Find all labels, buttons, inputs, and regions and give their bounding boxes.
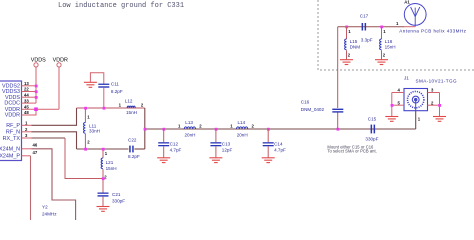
ground under J1 left (385, 117, 398, 122)
svg-text:C22: C22 (128, 138, 137, 143)
main RF line (145, 128, 416, 130)
svg-text:Y2: Y2 (42, 205, 48, 210)
svg-text:L13: L13 (185, 120, 193, 125)
inductor L16 (380, 26, 383, 29)
svg-text:A1: A1 (404, 0, 410, 4)
balun right vertical (144, 108, 146, 149)
VDDS wire (35, 67, 37, 103)
dashed antenna box (318, 0, 474, 70)
svg-text:330pF: 330pF (112, 198, 125, 203)
svg-text:4.7pF: 4.7pF (274, 148, 286, 153)
svg-text:46: 46 (33, 142, 38, 147)
IC U1 (CC1310) box (0, 81, 22, 161)
ground under J1 right (433, 117, 446, 122)
svg-text:20nH: 20nH (185, 133, 196, 138)
junction pin22/VDDS (35, 90, 38, 93)
svg-text:15nH: 15nH (385, 44, 396, 49)
svg-text:47: 47 (33, 150, 38, 155)
svg-text:15nH: 15nH (126, 110, 137, 115)
capacitor C14 shunt (267, 128, 270, 131)
pin 44 stub (22, 96, 37, 98)
svg-text:C17: C17 (360, 14, 369, 19)
svg-text:To select SMA or PCB ant.: To select SMA or PCB ant. (327, 149, 376, 154)
pin 3 RX_TX wire (22, 137, 32, 139)
svg-text:DNM: DNM (350, 44, 361, 49)
svg-text:RX_TX: RX_TX (3, 136, 21, 142)
balun bottom line (77, 148, 129, 150)
svg-text:DNM_0402: DNM_0402 (301, 107, 325, 112)
svg-text:L14: L14 (238, 120, 246, 125)
svg-text:L15: L15 (350, 39, 358, 44)
svg-text:4.7pF: 4.7pF (170, 148, 182, 153)
ground under L15 (340, 60, 353, 65)
svg-text:12pF: 12pF (222, 148, 233, 153)
svg-text:VDDR: VDDR (5, 113, 20, 119)
svg-text:DCDC: DCDC (4, 101, 20, 107)
svg-text:3.3pF: 3.3pF (361, 38, 373, 43)
junction L11 bottom (84, 148, 87, 151)
pin 48 stub and bracket to pin45 (22, 109, 37, 115)
junction pin44/VDDS (35, 96, 38, 99)
svg-text:33nH: 33nH (89, 129, 100, 134)
inductor L11 (84, 108, 86, 123)
pin 47 X24M_P wire down (22, 155, 31, 157)
svg-text:X24M_N: X24M_N (0, 147, 20, 153)
svg-text:SMA-10V21-TGG: SMA-10V21-TGG (416, 78, 457, 83)
svg-text:33: 33 (24, 98, 29, 103)
svg-text:C11: C11 (111, 82, 120, 87)
junction L21 pin2 / RX_TX (102, 177, 105, 180)
capacitor C21 (98, 193, 109, 194)
capacitor C13 shunt (215, 128, 218, 131)
pin 13 stub (22, 85, 37, 87)
capacitor C16 series to antenna (337, 128, 340, 131)
pin 1 RF_P wire (22, 124, 32, 126)
pin 2 RF_N wire (22, 131, 32, 133)
capacitor C17 series (362, 23, 364, 31)
junction pin45/VDDR big (34, 107, 38, 111)
junction C11 node (103, 107, 106, 110)
J1 right ground wire (439, 93, 441, 117)
svg-text:C13: C13 (222, 141, 231, 146)
svg-text:J1: J1 (404, 75, 409, 80)
capacitor C12 shunt (163, 128, 166, 131)
J1 pin 3 stub (428, 92, 440, 94)
svg-text:20nH: 20nH (237, 133, 248, 138)
svg-text:VDDS: VDDS (31, 58, 46, 64)
RX_TX vertical to balun mid node (65, 138, 103, 179)
ground symbol above C11 (84, 82, 97, 87)
svg-text:45: 45 (24, 104, 29, 109)
svg-text:L12: L12 (125, 99, 133, 104)
svg-text:RF_P: RF_P (6, 123, 20, 129)
ground over C11 wire bar (90, 73, 103, 84)
pin 33 stub (22, 102, 37, 104)
svg-text:Antenna PCB helix 433MHz: Antenna PCB helix 433MHz (399, 28, 466, 33)
ground under C12 (157, 158, 170, 163)
inductor L15 (DNM) (345, 26, 348, 29)
junction L21 top (102, 148, 105, 151)
svg-text:X24M_P: X24M_P (0, 154, 20, 160)
svg-text:Low inductance ground for C331: Low inductance ground for C331 (58, 2, 184, 10)
C11 bottom wire (103, 88, 105, 108)
antenna feed line (338, 26, 405, 28)
J1 pin 5 stub (392, 104, 404, 106)
svg-text:44: 44 (24, 92, 29, 97)
ground under C13 (209, 158, 222, 163)
svg-text:15nH: 15nH (106, 166, 117, 171)
antenna pin stub (405, 26, 416, 28)
svg-text:24MHz: 24MHz (42, 211, 57, 216)
pin 46 X24M_N wire staircase to crystal (22, 148, 32, 150)
junction L11 top (84, 107, 87, 110)
balun top line (77, 107, 145, 109)
svg-text:L16: L16 (385, 39, 393, 44)
junction main node (144, 128, 147, 131)
junction pin13/VDDS (35, 85, 38, 88)
svg-text:C15: C15 (368, 116, 377, 121)
J1 left ground wire (391, 93, 393, 117)
svg-text:C14: C14 (274, 141, 283, 146)
svg-text:48: 48 (24, 110, 29, 115)
svg-text:330pF: 330pF (365, 137, 378, 142)
J1 pin 4 stub (392, 92, 404, 94)
capacitor C15 series on main line (371, 125, 373, 134)
pin 22 stub (22, 91, 37, 93)
pin 45 stub to VDDR riser (22, 108, 60, 110)
svg-text:C16: C16 (301, 99, 310, 104)
svg-text:C12: C12 (170, 141, 179, 146)
svg-text:22: 22 (24, 87, 29, 92)
capacitor C11 plates (98, 84, 109, 85)
svg-text:L21: L21 (106, 160, 114, 165)
J1 pin 1 wire (415, 111, 417, 129)
J1 pin 2 stub (428, 104, 440, 106)
svg-text:8.2pF: 8.2pF (128, 154, 140, 159)
svg-text:C21: C21 (112, 192, 121, 197)
VDDR wire (58, 67, 60, 109)
svg-text:RF_N: RF_N (6, 130, 20, 136)
ground under L16 (375, 60, 388, 65)
svg-text:8.2pF: 8.2pF (111, 89, 123, 94)
svg-text:13: 13 (24, 81, 29, 86)
ground under C21 (97, 207, 110, 212)
inductor L21 (102, 149, 104, 158)
ground under C14 (262, 158, 275, 163)
